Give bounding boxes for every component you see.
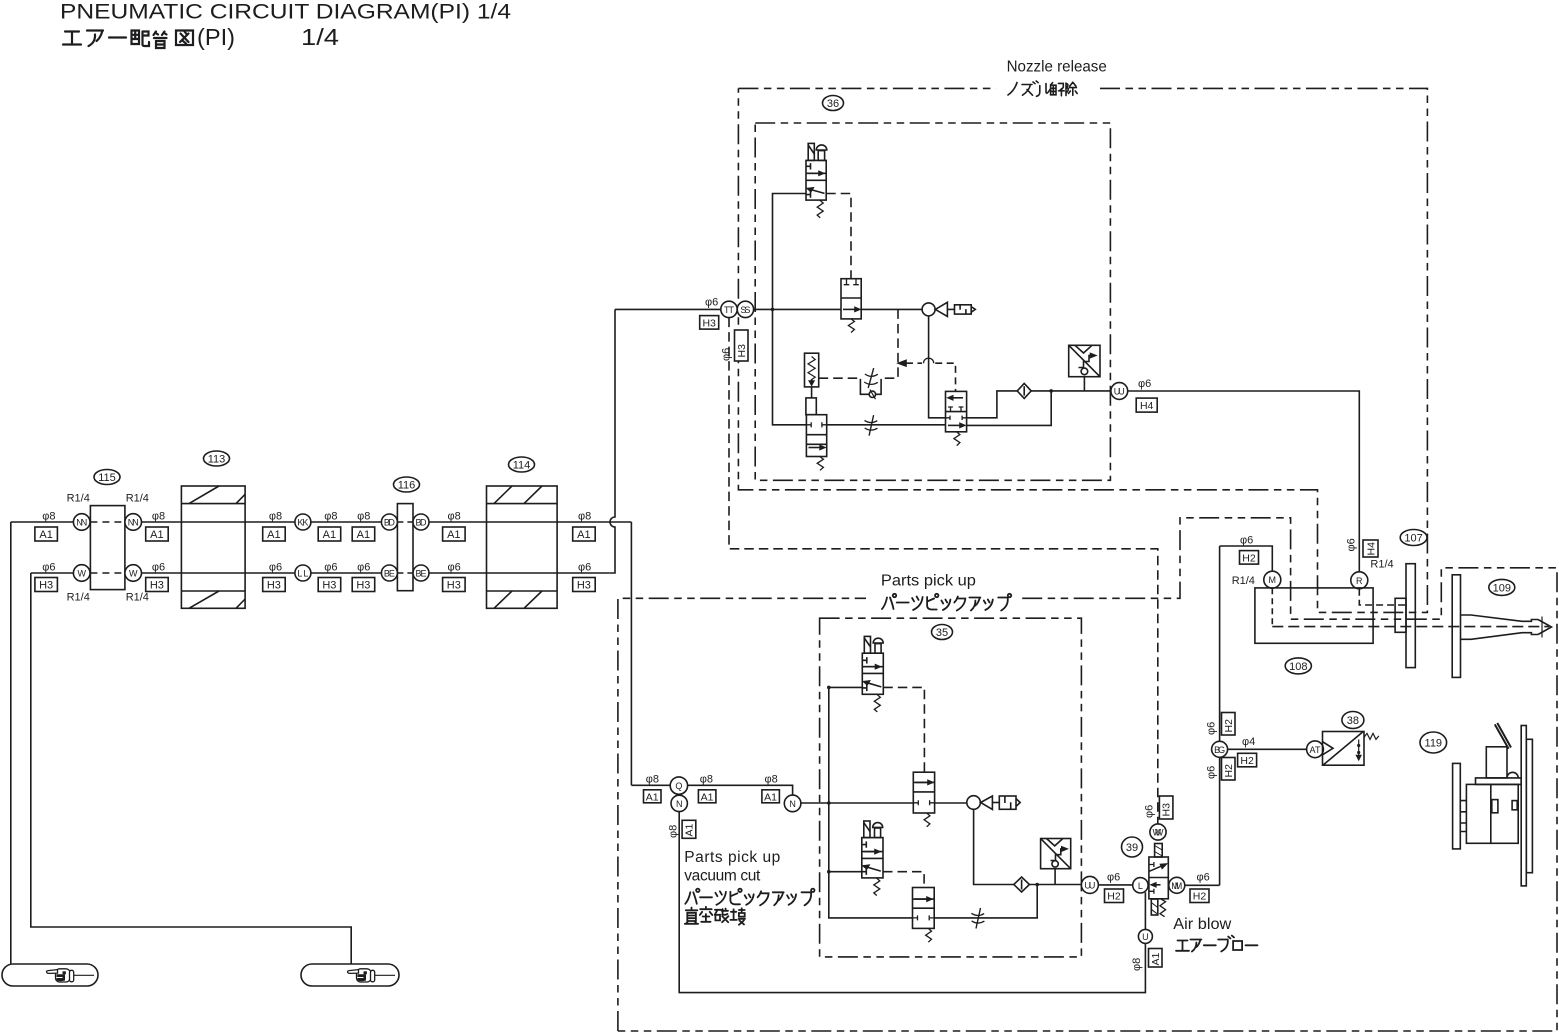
spring below V5	[924, 813, 930, 827]
port Q	[670, 777, 687, 794]
svg-text:114: 114	[513, 460, 531, 472]
svg-text:113: 113	[208, 454, 226, 466]
U drop from valve	[1144, 892, 1146, 929]
svg-text:39: 39	[1126, 842, 1138, 854]
svg-text:A1: A1	[357, 529, 370, 541]
manual override of V7	[873, 638, 883, 653]
wire KK to BD	[311, 521, 382, 523]
line V4 to V3 with throttle symbol	[827, 424, 946, 426]
svg-text:A1: A1	[646, 791, 659, 803]
dashed passage below M	[1271, 588, 1273, 626]
svg-text:KK: KK	[297, 518, 308, 528]
svg-text:φ6: φ6	[324, 562, 337, 574]
svg-text:φ6: φ6	[1240, 535, 1253, 547]
wire V8 left	[829, 871, 862, 873]
silencer (35)	[999, 796, 1020, 809]
svg-text:NN: NN	[76, 518, 87, 528]
svg-text:H4: H4	[1366, 542, 1378, 556]
port KK	[295, 514, 311, 530]
svg-text:BG: BG	[1214, 745, 1225, 755]
svg-text:φ6: φ6	[721, 348, 733, 361]
spring below V3	[954, 432, 960, 446]
throttle with check TH2	[860, 368, 881, 399]
svg-text:A1: A1	[39, 529, 52, 541]
38 oval label	[1342, 712, 1364, 729]
36 oval label	[823, 96, 844, 111]
wire BE2 to 114	[429, 572, 487, 574]
svg-text:H3: H3	[39, 580, 53, 592]
wire V5 to generator	[935, 802, 967, 804]
svg-text:H3: H3	[736, 344, 748, 358]
svg-text:116: 116	[398, 480, 416, 492]
svg-text:H2: H2	[1193, 891, 1207, 903]
phi8/A1 labels near Q/N	[646, 774, 778, 786]
svg-text:H3: H3	[1161, 803, 1173, 817]
svg-text:119: 119	[1425, 738, 1443, 750]
wire 114 to right top	[487, 521, 632, 523]
svg-text:H3: H3	[447, 580, 461, 592]
svg-text:φ6: φ6	[1144, 805, 1156, 818]
svg-text:W: W	[129, 569, 138, 579]
wire N2 to valve V5 line	[801, 802, 913, 804]
svg-text:H2: H2	[1242, 552, 1256, 564]
svg-text:φ6: φ6	[42, 562, 55, 574]
main line V2 to generator circle	[861, 308, 922, 310]
port TT	[721, 301, 737, 317]
svg-text:φ6: φ6	[1107, 872, 1120, 884]
svg-text:φ8: φ8	[324, 511, 337, 523]
svg-text:φ6: φ6	[1138, 378, 1151, 390]
valve V4 (bottom-left 3/2)	[806, 415, 826, 457]
パーツピックアップ label (hand-drawn)	[882, 594, 1011, 611]
svg-text:φ8: φ8	[448, 511, 461, 523]
wire LL to BE	[311, 572, 382, 574]
component 115 body	[90, 506, 125, 590]
manual override of V8	[873, 823, 883, 838]
spring below V6	[926, 928, 932, 942]
36 dashed enclosure	[755, 123, 1110, 480]
svg-text:R1/4: R1/4	[126, 592, 149, 604]
junction BG	[1212, 741, 1228, 757]
svg-text:φ8: φ8	[668, 825, 680, 838]
wire to M: from BG riser over to M	[1220, 546, 1273, 571]
port NN right	[125, 514, 142, 531]
valve V2 (2/2)	[841, 279, 861, 319]
pressure switch PS1	[1069, 345, 1100, 391]
component 115 oval label	[94, 470, 120, 485]
throttle symbol on line	[865, 415, 878, 436]
svg-text:φ6: φ6	[705, 297, 718, 309]
svg-text:38: 38	[1347, 715, 1359, 727]
ノズル解除 label (hand-drawn)	[1008, 81, 1077, 96]
port N (below Q)	[671, 795, 687, 811]
wire UU2 to L	[1098, 884, 1132, 886]
exhaust triangle (35)	[981, 796, 993, 810]
svg-text:A1: A1	[267, 529, 280, 541]
svg-text:φ6: φ6	[1346, 538, 1358, 551]
port BE right	[413, 565, 429, 581]
svg-text:H2: H2	[1240, 755, 1254, 767]
svg-text:φ8: φ8	[42, 511, 55, 523]
109 oval label	[1489, 579, 1515, 595]
svg-text:φ6: φ6	[269, 562, 282, 574]
port U	[1138, 929, 1152, 943]
solenoid box + spring below valve 39	[1151, 899, 1158, 915]
svg-text:R1/4: R1/4	[1232, 575, 1255, 587]
manual override of V1	[816, 145, 827, 160]
wire NN2 to KK	[142, 521, 295, 523]
wire TT feed vertical with hop over phi8 line	[610, 309, 615, 573]
svg-text:φ8: φ8	[646, 774, 659, 786]
35 dashed enclosure	[820, 618, 1082, 957]
silencer	[955, 305, 976, 314]
svg-text:φ8: φ8	[700, 774, 713, 786]
svg-text:H3: H3	[702, 317, 716, 329]
rotated phi6/H3 labels above WW	[1144, 805, 1156, 818]
svg-text:R: R	[1356, 576, 1363, 586]
filter diamond	[1017, 383, 1031, 398]
wire phi8 top line left segment	[11, 521, 74, 523]
svg-text:H3: H3	[322, 580, 336, 592]
wire BD2 to 114	[429, 521, 487, 523]
108 manifold body	[1255, 588, 1373, 643]
port M	[1264, 571, 1281, 588]
wire 114 to right bottom	[487, 572, 610, 574]
svg-text:φ6: φ6	[357, 562, 370, 574]
port BE left	[381, 565, 397, 581]
component 116 body	[397, 504, 413, 591]
svg-text:R1/4: R1/4	[1370, 559, 1393, 571]
wire BG to AT	[1228, 748, 1307, 750]
spring below V1	[817, 200, 823, 218]
svg-text:1/4: 1/4	[301, 24, 339, 50]
svg-text:A1: A1	[1150, 952, 1162, 965]
solenoid valve V1 (top, 3/2)	[806, 160, 826, 200]
svg-text:vacuum cut: vacuum cut	[684, 868, 761, 885]
port UU2	[1081, 876, 1098, 893]
svg-text:φ8: φ8	[269, 511, 282, 523]
svg-text:N: N	[676, 799, 683, 809]
svg-text:LL: LL	[297, 569, 308, 579]
main line SS to valve	[754, 308, 841, 310]
svg-text:φ8: φ8	[357, 511, 370, 523]
port NN left	[73, 514, 90, 531]
svg-text:U: U	[1142, 932, 1149, 942]
rotated phi6/H2 labels above BG	[1206, 722, 1218, 735]
port SS	[737, 301, 753, 317]
svg-text:Air blow: Air blow	[1173, 916, 1232, 933]
nozzle centerline dashed to 109 tip	[1272, 626, 1549, 628]
phi8/A1 labels top line	[42, 511, 591, 523]
pilot dashed from main line down to throttle TH2	[882, 309, 899, 378]
left bus vertical	[829, 687, 913, 918]
BG riser	[1219, 546, 1221, 885]
valve V3 (middle right 2/2)	[946, 391, 967, 431]
solenoid coil of V1	[808, 143, 814, 160]
pilot dashed V8 to V6	[883, 872, 924, 888]
svg-text:φ4: φ4	[1242, 736, 1255, 748]
rotated phi6/H3 labels on TT pilot	[721, 348, 733, 361]
svg-text:115: 115	[98, 472, 116, 484]
真空破壊 text (hand-drawn)	[685, 907, 745, 925]
svg-text:35: 35	[936, 627, 948, 639]
svg-text:H3: H3	[577, 580, 591, 592]
svg-text:φ8: φ8	[152, 511, 165, 523]
svg-text:A1: A1	[764, 791, 777, 803]
svg-text:SS: SS	[740, 305, 750, 315]
パーツピックアップ text (hand-drawn)	[685, 889, 814, 906]
svg-text:A1: A1	[447, 529, 460, 541]
spring below V7	[874, 694, 880, 712]
svg-text:Q: Q	[675, 781, 682, 791]
rotated phi6/H2 labels below BG	[1206, 766, 1218, 779]
wire W2 to LL	[142, 572, 295, 574]
solenoid coil of V8	[864, 821, 870, 838]
svg-text:A1: A1	[323, 529, 336, 541]
svg-text:φ6: φ6	[1206, 722, 1218, 735]
svg-text:φ6: φ6	[578, 562, 591, 574]
component 113 oval label	[204, 451, 230, 466]
port AT	[1307, 741, 1324, 758]
solenoid valve V8 (35 lower, 3/2)	[862, 838, 883, 878]
line diamond to UU	[1031, 390, 1111, 392]
108 oval label	[1285, 658, 1311, 674]
svg-text:R1/4: R1/4	[67, 493, 90, 505]
svg-text:BD: BD	[416, 518, 428, 528]
pilot solenoid box above valve 39	[1155, 844, 1163, 858]
svg-text:PNEUMATIC CIRCUIT DIAGRAM(PI): PNEUMATIC CIRCUIT DIAGRAM(PI) 1/4	[60, 1, 511, 24]
component 113 body (filter with hatched bands)	[181, 486, 245, 608]
svg-text:W: W	[77, 569, 86, 579]
hand symbol right (stadium)	[301, 964, 399, 986]
component 38 regulator	[1323, 732, 1379, 766]
port WW	[1150, 824, 1166, 840]
phi6/H3 labels bottom line	[42, 562, 591, 574]
wire phi8 left drop to hand symbol	[10, 522, 12, 964]
line circle down to valve V3	[929, 316, 946, 418]
svg-text:H4: H4	[1140, 400, 1154, 412]
title japanese: エアー配管図 (hand-drawn strokes)	[63, 31, 193, 49]
svg-text:Parts pick up: Parts pick up	[881, 573, 976, 590]
wire from left chain to TT	[615, 308, 721, 310]
wire phi8 drop to parts pick up	[630, 522, 632, 785]
svg-text:MM: MM	[1171, 881, 1182, 891]
svg-text:A1: A1	[150, 529, 163, 541]
component 114 body (filter with hatched bands)	[487, 486, 558, 608]
svg-text:BD: BD	[384, 518, 396, 528]
39 oval label	[1122, 837, 1143, 857]
wire phi6 bottom line left segment	[31, 572, 74, 574]
svg-text:A1: A1	[701, 791, 714, 803]
pilot dashed V1 to V2	[826, 194, 851, 279]
valve V6 (35 lower 2/2)	[913, 888, 935, 929]
svg-text:φ6: φ6	[1206, 766, 1218, 779]
port N2	[784, 795, 801, 812]
pilot dashed V7 to V5	[883, 687, 924, 772]
port UU	[1111, 383, 1128, 400]
valve V5 (35 middle 2/2)	[913, 772, 934, 813]
svg-text:H2: H2	[1223, 764, 1235, 778]
svg-text:L: L	[1138, 881, 1143, 891]
wire MM to BG riser	[1185, 884, 1220, 886]
hand symbol left (stadium)	[2, 964, 98, 986]
svg-text:Nozzle release: Nozzle release	[1007, 59, 1107, 76]
pilot dashed with arrow to valve V3 top	[899, 358, 956, 391]
R1/4 labels around 115	[67, 493, 149, 604]
N drop line to bottom run and to U	[679, 812, 1145, 993]
svg-text:H3: H3	[356, 580, 370, 592]
svg-text:φ6: φ6	[448, 562, 461, 574]
svg-text:A1: A1	[683, 823, 695, 836]
filter diamond (35)	[1014, 877, 1030, 892]
dashed pilot B1 to throttle TH2	[819, 377, 860, 379]
wire into Q	[631, 784, 670, 786]
wire Q to N2	[688, 785, 793, 795]
throttle symbol on lower line	[971, 908, 984, 929]
svg-text:R1/4: R1/4	[126, 493, 149, 505]
svg-text:UU: UU	[1084, 880, 1095, 890]
port W right	[125, 565, 142, 582]
branch vertical to top valve and down to lower valve	[773, 194, 807, 425]
svg-text:109: 109	[1493, 582, 1511, 594]
svg-text:M: M	[1269, 575, 1277, 585]
port BD left	[381, 514, 397, 530]
svg-text:AT: AT	[1310, 745, 1322, 755]
title text	[60, 1, 511, 51]
port R	[1351, 572, 1368, 589]
pressure switch PS2	[1041, 839, 1071, 885]
port L	[1133, 878, 1148, 893]
spring below V2	[848, 319, 854, 333]
port BD right	[413, 514, 429, 530]
parts pick up vacuum cut text block	[684, 849, 780, 885]
rotated phi8/A1 labels near U drop	[1131, 958, 1143, 971]
wire UU to right and down to R	[1128, 391, 1360, 572]
solenoid coil of V7	[864, 636, 870, 653]
parts pick up + right region boundary (chain line)	[618, 518, 1557, 1031]
svg-text:φ8: φ8	[765, 774, 778, 786]
pilot dashed line TT down right to WW	[729, 318, 1158, 824]
svg-text:UU: UU	[1114, 387, 1125, 397]
35 oval label	[932, 625, 953, 640]
component 114 oval label	[509, 457, 535, 472]
svg-text:108: 108	[1289, 661, 1307, 673]
solenoid valve V7 (35 top, 3/2)	[862, 653, 883, 694]
svg-text:φ8: φ8	[578, 511, 591, 523]
port W left	[73, 565, 90, 582]
svg-text:H2: H2	[1223, 719, 1235, 733]
svg-text:R1/4: R1/4	[67, 592, 90, 604]
component 107 plate	[1395, 564, 1415, 668]
svg-text:H3: H3	[267, 580, 281, 592]
rotated phi6 / H4 labels on R drop	[1346, 538, 1358, 551]
svg-text:36: 36	[827, 98, 839, 110]
vacuum generator circle	[922, 303, 935, 316]
svg-text:TT: TT	[724, 305, 735, 315]
pilot spring box B1	[805, 353, 819, 387]
svg-text:Parts pick up: Parts pick up	[684, 849, 780, 866]
rotated phi8/A1 labels on N drop	[668, 825, 680, 838]
R drop inside 108	[1359, 589, 1405, 605]
svg-text:A1: A1	[577, 529, 590, 541]
svg-text:N: N	[789, 799, 796, 809]
svg-text:BE: BE	[416, 569, 427, 579]
exhaust triangle	[935, 302, 947, 316]
wire phi6 left drop and run to right hand symbol	[31, 573, 351, 964]
generator down to diamond line	[974, 809, 1014, 884]
svg-text:φ6: φ6	[1197, 872, 1210, 884]
component 109 nozzle holder	[1452, 575, 1551, 678]
svg-text:107: 107	[1404, 533, 1422, 545]
svg-text:H2: H2	[1107, 891, 1121, 903]
エアーブロー label (hand-drawn)	[1176, 936, 1258, 952]
valve 39 body	[1149, 857, 1168, 899]
spring below V4	[817, 457, 823, 471]
119 oval label	[1420, 732, 1447, 753]
svg-text:φ6: φ6	[152, 562, 165, 574]
svg-text:BE: BE	[384, 569, 395, 579]
lower return line with riser	[934, 885, 1037, 918]
svg-text:(PI): (PI)	[197, 24, 235, 50]
V3 right connections	[967, 391, 1018, 418]
svg-text:NN: NN	[128, 518, 139, 528]
line diamond to UU2	[1029, 884, 1081, 886]
svg-text:WW: WW	[1153, 828, 1165, 838]
107 oval label	[1400, 530, 1427, 546]
port LL	[295, 565, 311, 581]
spring below V8	[874, 878, 880, 896]
svg-text:H3: H3	[150, 580, 164, 592]
port MM	[1169, 877, 1185, 893]
vacuum generator circle (35)	[967, 796, 981, 810]
svg-text:φ8: φ8	[1131, 958, 1143, 971]
nozzle release boundary (chain line)	[738, 88, 1427, 612]
component 116 oval label	[394, 477, 420, 492]
component 119 pickup head	[1453, 723, 1533, 886]
